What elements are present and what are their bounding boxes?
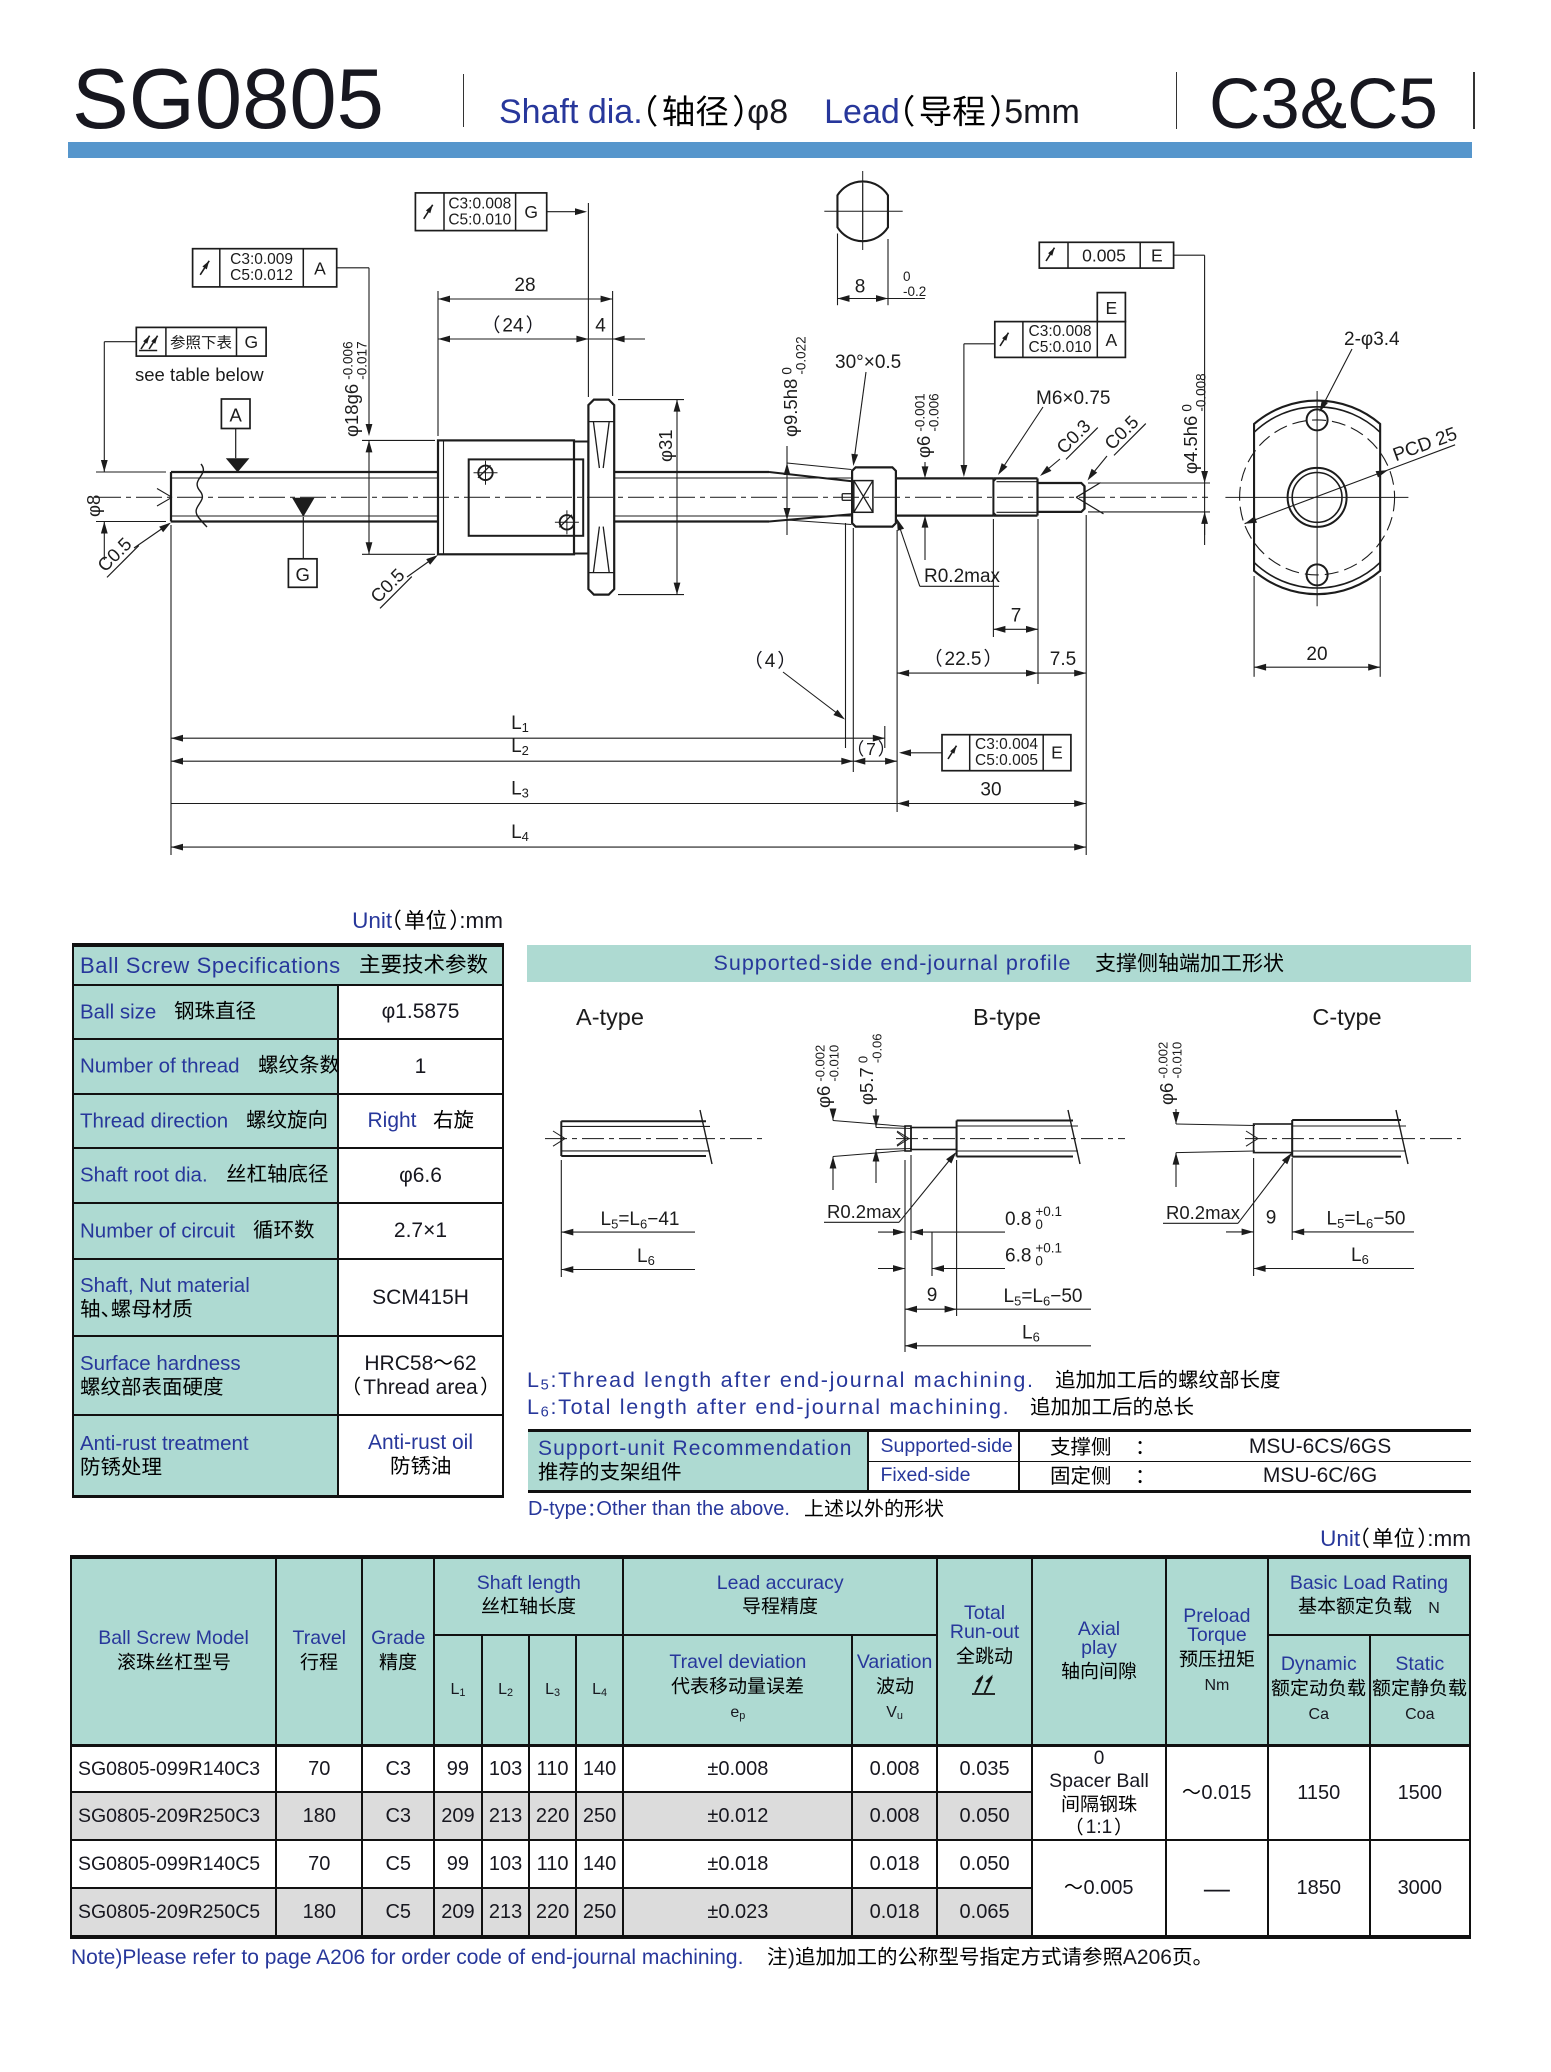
svg-text:A-type: A-type	[576, 1004, 644, 1030]
svg-text:-0.002: -0.002	[813, 1045, 828, 1082]
svg-text:φ9.5h8: φ9.5h8	[780, 379, 801, 437]
svg-text:9: 9	[927, 1285, 938, 1306]
svg-text:C-type: C-type	[1312, 1004, 1381, 1030]
svg-text:B-type: B-type	[973, 1004, 1041, 1030]
svg-text:L6: L6	[1351, 1245, 1369, 1267]
svg-text:E: E	[1151, 246, 1163, 266]
svg-text:A: A	[1105, 330, 1117, 350]
svg-text:0.005: 0.005	[1082, 246, 1126, 266]
svg-text:φ6: φ6	[913, 436, 934, 458]
svg-text:L6: L6	[1022, 1323, 1040, 1345]
svg-text:see table below: see table below	[135, 364, 264, 385]
svg-text:-0.022: -0.022	[794, 336, 809, 374]
svg-text:-0.006: -0.006	[341, 341, 356, 379]
svg-text:R0.2max: R0.2max	[924, 566, 1001, 587]
svg-text:8: 8	[855, 277, 866, 298]
svg-text:L1: L1	[511, 713, 529, 735]
svg-text:E: E	[1105, 298, 1117, 318]
svg-text:9: 9	[1266, 1208, 1277, 1229]
svg-text:-0.002: -0.002	[1156, 1042, 1171, 1079]
svg-text:A: A	[314, 258, 326, 278]
svg-text:20: 20	[1306, 644, 1327, 665]
svg-text:30°×0.5: 30°×0.5	[835, 352, 901, 373]
svg-text:C5:0.010: C5:0.010	[448, 211, 511, 228]
svg-text:30: 30	[980, 780, 1001, 801]
svg-text:G: G	[244, 332, 258, 352]
svg-text:4: 4	[595, 316, 606, 337]
svg-text:G: G	[296, 564, 310, 585]
svg-text:φ6: φ6	[1156, 1083, 1177, 1105]
svg-text:4: 4	[765, 651, 776, 672]
svg-text:φ6: φ6	[813, 1086, 834, 1108]
svg-text:-0.017: -0.017	[355, 341, 370, 379]
svg-text:R0.2max: R0.2max	[1166, 1202, 1241, 1223]
svg-text:C3:0.008: C3:0.008	[448, 195, 511, 212]
svg-text:L5​=L6​−50: L5​=L6​−50	[1327, 1209, 1406, 1232]
svg-text:C5:0.010: C5:0.010	[1029, 339, 1092, 356]
svg-text:φ5.7: φ5.7	[856, 1067, 877, 1105]
svg-text:C3:0.008: C3:0.008	[1029, 323, 1092, 340]
svg-text:0: 0	[1035, 1217, 1043, 1232]
svg-text:22.5: 22.5	[945, 649, 982, 670]
svg-text:φ18g6: φ18g6	[341, 384, 362, 437]
svg-text:-0.2: -0.2	[903, 284, 926, 299]
svg-text:L6: L6	[637, 1246, 655, 1268]
svg-text:C3:0.004: C3:0.004	[975, 736, 1038, 753]
svg-text:0: 0	[1035, 1254, 1043, 1269]
svg-text:7: 7	[1011, 606, 1022, 627]
svg-text:G: G	[524, 202, 538, 222]
svg-text:L5​=L6​−50: L5​=L6​−50	[1004, 1286, 1083, 1309]
svg-text:φ8: φ8	[83, 495, 104, 517]
svg-text:L5​=L6​−41: L5​=L6​−41	[601, 1209, 680, 1232]
svg-text:L4: L4	[511, 822, 529, 844]
svg-text:2-φ3.4: 2-φ3.4	[1344, 329, 1400, 350]
svg-text:7: 7	[866, 739, 876, 759]
svg-text:C5:0.012: C5:0.012	[230, 267, 293, 284]
svg-text:24: 24	[502, 316, 524, 337]
svg-text:-0.010: -0.010	[1170, 1042, 1185, 1079]
svg-text:-0.006: -0.006	[927, 393, 942, 431]
svg-text:7.5: 7.5	[1050, 649, 1076, 670]
svg-text:-0.008: -0.008	[1194, 373, 1209, 411]
svg-text:0: 0	[780, 367, 795, 375]
svg-text:PCD 25: PCD 25	[1390, 424, 1460, 466]
svg-text:0: 0	[856, 1056, 871, 1063]
svg-text:C3:0.009: C3:0.009	[230, 251, 293, 268]
svg-text:-0.001: -0.001	[913, 393, 928, 431]
svg-text:C5:0.005: C5:0.005	[975, 752, 1038, 769]
svg-text:-0.010: -0.010	[827, 1045, 842, 1082]
svg-text:E: E	[1051, 743, 1063, 763]
svg-text:R0.2max: R0.2max	[827, 1201, 902, 1222]
svg-text:28: 28	[514, 275, 535, 296]
svg-text:L3: L3	[511, 779, 529, 801]
svg-text:0: 0	[903, 269, 911, 284]
svg-text:6.8: 6.8	[1005, 1246, 1031, 1267]
svg-text:M6×0.75: M6×0.75	[1036, 388, 1110, 409]
svg-text:0.8: 0.8	[1005, 1209, 1031, 1230]
svg-text:A: A	[230, 405, 243, 426]
svg-text:φ4.5h6: φ4.5h6	[1180, 416, 1201, 474]
svg-text:-0.06: -0.06	[870, 1033, 885, 1063]
svg-text:L2: L2	[511, 736, 529, 758]
svg-text:0: 0	[1180, 404, 1195, 412]
svg-text:φ31: φ31	[655, 429, 676, 462]
